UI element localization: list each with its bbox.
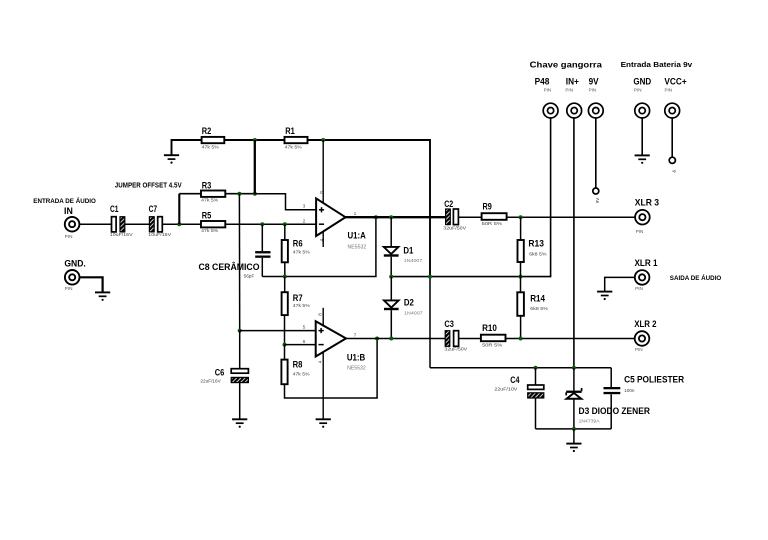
pin label 8 U1:A [319, 191, 324, 194]
svg-text:D2: D2 [404, 298, 414, 308]
svg-text:5: 5 [303, 325, 306, 331]
junction U1:B pin5 node [238, 329, 242, 333]
pin label 8 U1:B [318, 313, 323, 316]
diode D2 [384, 277, 423, 339]
wire U1:B pin8 stub [322, 308, 324, 326]
junction net2-R13/R14 [519, 275, 523, 279]
svg-text:C7: C7 [149, 204, 158, 214]
wire C2 to R9 [458, 216, 481, 218]
svg-text:47k 5%: 47k 5% [293, 371, 310, 376]
capacitor C6 [200, 331, 248, 420]
svg-text:U1:A: U1:A [348, 231, 367, 241]
svg-text:9V: 9V [589, 76, 599, 86]
svg-text:JUMPER OFFSET 4.5V: JUMPER OFFSET 4.5V [115, 183, 182, 190]
op-amp U1:A [316, 198, 366, 250]
svg-text:56pF: 56pF [244, 274, 255, 279]
wire C1 to C7 [125, 223, 150, 225]
wire R10 to XLR2 [506, 338, 635, 340]
pin label 6 [303, 339, 306, 345]
svg-text:1: 1 [354, 211, 357, 217]
resistor R3 [201, 180, 225, 202]
resistor R6 [282, 224, 310, 276]
wire R2 to R1 [224, 139, 284, 141]
svg-text:7: 7 [354, 332, 357, 338]
svg-text:&: & [671, 170, 676, 173]
junction R14 bottom [519, 337, 523, 341]
svg-text:U1:B: U1:B [347, 353, 366, 363]
capacitor C4 [494, 368, 543, 429]
junction rail-R3 vertical [253, 138, 257, 142]
svg-text:NE5532: NE5532 [347, 365, 366, 371]
capacitor C8 ceramic [199, 224, 271, 279]
wire 9V stub [595, 118, 597, 188]
terminal IN+ [565, 76, 581, 118]
resistor R10 [481, 323, 506, 347]
pin label 4 U1:B [318, 360, 323, 363]
svg-text:PIN: PIN [65, 286, 73, 291]
diode D1 [384, 217, 423, 276]
wire net2 rail to P48 [391, 118, 550, 277]
svg-text:R10: R10 [482, 323, 497, 333]
svg-text:ENTRADA DE ÁUDIO: ENTRADA DE ÁUDIO [33, 196, 96, 205]
junction U1:B output-feedback [375, 337, 379, 341]
svg-text:4: 4 [318, 360, 323, 363]
svg-text:PIN: PIN [635, 347, 643, 352]
ground (U1:B pin4) [316, 419, 331, 428]
ground (zener gnd) [566, 444, 581, 453]
svg-text:IN+: IN+ [566, 76, 579, 86]
ground (C6) [232, 419, 247, 428]
wire VCC+ stub [671, 118, 673, 157]
junction net2-x430 [428, 275, 432, 279]
junction bottom-gnd [572, 427, 576, 431]
connector IN (audio input) [64, 206, 79, 239]
svg-text:Chave gangorra: Chave gangorra [530, 59, 602, 69]
capacitor C2 [443, 199, 467, 231]
svg-text:GND.: GND. [64, 259, 85, 269]
terminal VCC+ [664, 76, 686, 118]
ground (top-left rail) [164, 155, 179, 164]
svg-text:PIN: PIN [636, 229, 644, 234]
capacitor C7 [148, 204, 172, 237]
wire C7 to node A [162, 223, 201, 225]
svg-text:PIN: PIN [565, 87, 573, 92]
svg-text:47k 5%: 47k 5% [285, 144, 302, 149]
svg-text:C8 CERÂMICO: C8 CERÂMICO [199, 261, 260, 272]
node 9V open terminal [593, 188, 600, 203]
title Chave gangorra [530, 59, 602, 69]
terminal 9V [588, 76, 603, 118]
svg-text:NE5532: NE5532 [348, 244, 367, 250]
junction rail-pin8 [321, 138, 325, 142]
svg-text:47k 5%: 47k 5% [202, 144, 219, 149]
svg-text:PIN: PIN [665, 87, 673, 92]
svg-text:R7: R7 [293, 293, 303, 303]
wire U1:A output to C2 [346, 216, 446, 218]
svg-text:22uF/10V: 22uF/10V [494, 387, 518, 392]
svg-text:PIN: PIN [635, 286, 643, 291]
pin label 4 U1:A [319, 239, 324, 242]
connector XLR 1 [635, 258, 658, 291]
svg-text:XLR 2: XLR 2 [634, 319, 656, 329]
svg-text:PIN: PIN [544, 87, 552, 92]
node VCC+ open terminal [669, 157, 676, 172]
capacitor C1 [110, 204, 134, 237]
terminal GND battery [633, 76, 651, 118]
junction U1:A output-feedback [374, 215, 378, 219]
wire bottom ground rail [536, 428, 612, 430]
wire jumper offset 4.5V [178, 194, 180, 225]
junction U1:B pin6 node [283, 343, 287, 347]
wire vertical node B2 to rail [254, 140, 256, 194]
wire bottom supply rail [430, 367, 611, 369]
connector GND input [64, 259, 85, 292]
wire R3 to node B [225, 193, 255, 195]
label SAIDA DE AUDIO [670, 273, 722, 282]
wire XLR1 to ground [605, 277, 635, 291]
resistor R5 [201, 211, 225, 233]
svg-text:C1: C1 [110, 204, 119, 214]
svg-text:R6: R6 [293, 238, 303, 248]
junction rail-C4 [534, 366, 538, 370]
svg-text:C5 POLIESTER: C5 POLIESTER [624, 375, 684, 385]
node B junction on R3 wire [237, 192, 241, 196]
svg-text:2: 2 [303, 219, 306, 225]
svg-text:50R 5%: 50R 5% [482, 221, 502, 226]
svg-text:10uF/16V: 10uF/16V [148, 232, 172, 237]
svg-text:1N4007: 1N4007 [404, 258, 423, 263]
svg-text:VCC+: VCC+ [664, 76, 686, 86]
svg-text:XLR 3: XLR 3 [635, 198, 659, 208]
resistor R7 [282, 277, 310, 345]
svg-text:1N4739A: 1N4739A [579, 418, 601, 423]
svg-text:PIN: PIN [634, 87, 642, 92]
ground (XLR1 gnd) [597, 292, 612, 301]
node B2 junction [253, 192, 257, 196]
label ENTRADA DE AUDIO [33, 196, 96, 205]
wire C3 to R10 [459, 338, 481, 340]
wire IN to C1 [79, 223, 111, 225]
wire vertical x430 lower [429, 277, 431, 368]
junction output-D1 [389, 215, 393, 219]
wire IN+ riser [573, 118, 575, 368]
svg-text:6: 6 [303, 339, 306, 345]
svg-text:32uF/50V: 32uF/50V [443, 226, 467, 231]
label JUMPER OFFSET 4.5V [115, 183, 182, 190]
wire node B2 to U1:A pin3 [255, 194, 316, 210]
capacitor C3 [444, 319, 468, 351]
wire vertical rail down x430 [429, 139, 431, 277]
resistor R2 [202, 126, 225, 149]
wire U1:A pin8 stub [322, 140, 324, 203]
svg-text:47k 5%: 47k 5% [293, 249, 310, 254]
svg-text:GND: GND [633, 76, 651, 86]
svg-text:6k8 5%: 6k8 5% [530, 306, 548, 311]
resistor R14 [517, 277, 548, 339]
wire R9 to XLR3 [507, 216, 635, 218]
pin label 5 [303, 325, 306, 331]
svg-text:R13: R13 [528, 239, 544, 249]
svg-text:47k 5%: 47k 5% [293, 303, 310, 308]
svg-text:XLR 1: XLR 1 [635, 258, 658, 268]
svg-text:P48: P48 [535, 76, 550, 86]
wire U1:A pin4 stub [322, 232, 324, 248]
svg-text:50R 5%: 50R 5% [482, 343, 502, 348]
resistor R13 [518, 217, 547, 276]
svg-text:9V: 9V [595, 198, 600, 204]
svg-text:8: 8 [318, 313, 323, 316]
svg-text:D1: D1 [403, 245, 413, 255]
junction net2-D1/D2 [389, 275, 393, 279]
wire U1:B pin4 to ground [322, 352, 324, 419]
wire GND connector to ground [80, 277, 103, 292]
svg-text:32uF/50V: 32uF/50V [444, 346, 468, 351]
op-amp U1:B [316, 321, 366, 371]
svg-text:10uF/16V: 10uF/16V [110, 232, 134, 237]
wire gnd stub [573, 429, 575, 444]
svg-text:Entrada Bateria 9v: Entrada Bateria 9v [621, 60, 694, 69]
wire GND battery stub [641, 118, 643, 155]
wire U1:B output to C3 [346, 338, 445, 340]
wire node A to R3 [179, 193, 201, 195]
svg-text:C2: C2 [444, 199, 453, 209]
svg-text:C4: C4 [510, 375, 520, 385]
ground (input gnd) [95, 292, 110, 301]
svg-text:R2: R2 [202, 126, 212, 136]
wire top rail left + ground stub [172, 140, 202, 155]
svg-text:8: 8 [319, 191, 324, 194]
junction net1 R6/R7 [283, 275, 287, 279]
wire pin6 to U1:B [285, 344, 316, 346]
wire feedback net1 rail [262, 217, 376, 276]
resistor R8 [281, 339, 377, 399]
svg-text:PIN: PIN [65, 234, 73, 239]
wire x239 vertical (offset node) [238, 194, 240, 331]
svg-text:R3: R3 [202, 180, 212, 190]
svg-text:47k 5%: 47k 5% [201, 197, 218, 202]
junction rail-D3-IN+ [572, 366, 576, 370]
svg-text:R9: R9 [483, 201, 492, 211]
diode D3 zener [566, 368, 650, 429]
svg-text:1N4007: 1N4007 [404, 310, 423, 315]
junction R6 top on pin2 wire [283, 222, 287, 226]
svg-text:47k 5%: 47k 5% [201, 228, 218, 233]
svg-text:IN: IN [64, 206, 73, 216]
svg-text:6k8 5%: 6k8 5% [529, 251, 547, 256]
svg-text:R8: R8 [293, 360, 303, 370]
pin label 3 [303, 204, 306, 210]
capacitor C5 poliester [604, 368, 685, 429]
connector XLR 3 [635, 198, 659, 235]
svg-text:C3: C3 [444, 319, 454, 329]
junction C8 top on pin2 wire [260, 222, 264, 226]
svg-text:SAIDA DE ÁUDIO: SAIDA DE ÁUDIO [670, 273, 722, 282]
svg-text:22uF/16V: 22uF/16V [200, 379, 221, 384]
wire pin5 to U1:B [240, 330, 316, 332]
svg-text:100n: 100n [624, 388, 635, 393]
pin label 2 [303, 219, 306, 225]
ground (battery gnd) [635, 155, 650, 164]
wire R5 to U1:A pin2 [225, 223, 316, 225]
wire R1 to corner [308, 139, 431, 141]
node A junction (input node) [177, 222, 181, 226]
junction R13 top [519, 215, 523, 219]
connector XLR 2 [634, 319, 656, 352]
svg-text:D3 DIODO ZENER: D3 DIODO ZENER [579, 406, 651, 416]
svg-text:R1: R1 [285, 126, 295, 136]
pin label 1 [354, 211, 357, 217]
svg-text:PIN: PIN [589, 87, 597, 92]
pin label 7 [354, 332, 357, 338]
svg-text:R14: R14 [530, 293, 546, 303]
svg-text:C6: C6 [215, 368, 225, 378]
svg-text:3: 3 [303, 204, 306, 210]
terminal P48 [535, 76, 558, 118]
svg-text:R5: R5 [202, 211, 212, 221]
title Entrada Bateria 9v [621, 60, 694, 69]
resistor R9 [482, 201, 507, 226]
junction output-D2 [389, 337, 393, 341]
resistor R1 [285, 126, 308, 149]
